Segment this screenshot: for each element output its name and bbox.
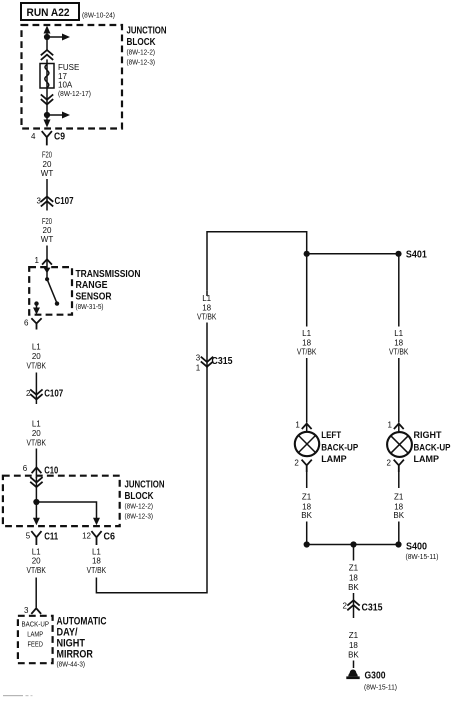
wire: right lamp feed lower segment xyxy=(398,358,400,423)
wire: branch to C6 xyxy=(36,502,96,519)
svg-text:(8W-12-3): (8W-12-3) xyxy=(127,58,156,67)
wire label Z1 18 BK (right) xyxy=(393,493,404,521)
svg-text:20: 20 xyxy=(43,226,52,235)
connector C107 pin 3 xyxy=(37,196,74,207)
wire label Z1 18 BK (above C315) xyxy=(348,564,359,592)
svg-text:VT/BK: VT/BK xyxy=(26,566,46,575)
wire label L1 18 VT/BK (right lamp) xyxy=(389,329,409,356)
node: splice dot above fuse with right arrow xyxy=(44,34,70,41)
svg-text:18: 18 xyxy=(394,502,403,511)
splice S400 xyxy=(395,541,438,561)
svg-text:LAMP: LAMP xyxy=(27,630,43,639)
wire: C6 run to C315 (down, right, up long riser) xyxy=(96,368,207,593)
svg-text:JUNCTION: JUNCTION xyxy=(125,480,165,491)
right back-up lamp label xyxy=(414,430,451,465)
svg-text:VT/BK: VT/BK xyxy=(27,439,47,448)
svg-text:1: 1 xyxy=(295,421,300,430)
left back-up lamp label xyxy=(321,430,358,465)
svg-text:RUN A22: RUN A22 xyxy=(27,7,70,19)
svg-text:VT/BK: VT/BK xyxy=(297,347,317,356)
svg-text:20: 20 xyxy=(32,557,41,566)
wire: pin 1 entry arrow into sensor xyxy=(44,268,51,278)
svg-text:(8W-12-3): (8W-12-3) xyxy=(125,512,154,521)
wire: S400 ground bus xyxy=(307,544,399,546)
node: splice dot middle of S400 bus xyxy=(350,541,356,547)
svg-text:(8W-15-11): (8W-15-11) xyxy=(406,552,439,561)
wire segment C9 to C107 xyxy=(46,179,48,211)
switch pole with exit arrow to pin 6 xyxy=(33,301,40,314)
svg-text:G300: G300 xyxy=(365,671,386,682)
junction block (upper) label xyxy=(127,26,167,67)
switch contact (movable blade) xyxy=(45,277,59,306)
svg-text:WT: WT xyxy=(41,169,54,178)
svg-text:VT/BK: VT/BK xyxy=(389,347,409,356)
wire label L1 18 VT/BK (riser) xyxy=(197,294,217,322)
mirror pin 3 connector xyxy=(24,606,41,615)
svg-text:18: 18 xyxy=(349,573,358,582)
wire label L1 20 VT/BK xyxy=(27,343,47,371)
wire label L1 18 VT/BK (left lamp) xyxy=(297,329,317,356)
wire: right lamp ground upper segment xyxy=(398,472,400,488)
svg-text:Z1: Z1 xyxy=(349,631,359,640)
svg-text:S400: S400 xyxy=(406,541,427,552)
junction block (upper) dashed outline xyxy=(22,25,123,129)
left back-up lamp bulb xyxy=(295,432,319,456)
wire: C6 exit arrow xyxy=(93,518,100,526)
svg-text:RANGE: RANGE xyxy=(76,280,108,291)
wire segment C107 to sensor pin 1 xyxy=(46,246,48,272)
svg-text:12: 12 xyxy=(82,532,91,541)
wire: right lamp feed upper segment xyxy=(398,254,400,327)
junction block (lower) dashed outline xyxy=(3,476,120,526)
svg-text:2: 2 xyxy=(386,458,391,467)
automatic day/night mirror label xyxy=(57,616,107,669)
svg-text:(8W-12-17): (8W-12-17) xyxy=(58,89,91,98)
svg-text:5: 5 xyxy=(26,532,31,541)
svg-text:S401: S401 xyxy=(406,250,427,261)
svg-text:4: 4 xyxy=(31,132,36,141)
svg-text:17: 17 xyxy=(58,72,67,81)
svg-text:18: 18 xyxy=(302,502,311,511)
connector C6 pin 12 xyxy=(82,532,115,545)
svg-text:1: 1 xyxy=(387,421,392,430)
svg-text:(8W-31-5): (8W-31-5) xyxy=(76,302,104,311)
svg-text:Z1: Z1 xyxy=(394,493,404,502)
svg-text:C315: C315 xyxy=(212,356,233,367)
wire label Z1 18 BK (below C315) xyxy=(348,631,359,659)
svg-text:F20: F20 xyxy=(42,151,52,160)
svg-text:L1: L1 xyxy=(302,329,311,338)
svg-text:BACK-UP: BACK-UP xyxy=(21,620,49,629)
wire: splice dot to chevron xyxy=(46,37,48,51)
svg-text:6: 6 xyxy=(24,318,29,327)
transmission range sensor dashed outline xyxy=(29,267,72,315)
svg-text:LEFT: LEFT xyxy=(321,430,341,441)
svg-text:L1: L1 xyxy=(32,547,41,556)
svg-text:FEED: FEED xyxy=(27,640,43,649)
fuse 17 element xyxy=(40,64,54,89)
svg-text:BK: BK xyxy=(348,651,359,660)
svg-text:L1: L1 xyxy=(32,343,41,352)
wire label L1 18 VT/BK (C6) xyxy=(87,547,107,575)
svg-text:F20: F20 xyxy=(42,217,52,226)
switch state box RUN A22 xyxy=(21,3,79,20)
sensor pin 6 connector xyxy=(24,318,41,328)
svg-text:C9: C9 xyxy=(54,132,65,143)
wire segment riser above label xyxy=(206,291,208,296)
svg-text:C11: C11 xyxy=(44,532,58,543)
faint page artifact bottom-left xyxy=(3,695,33,696)
svg-text:BACK-UP: BACK-UP xyxy=(321,443,358,454)
svg-text:18: 18 xyxy=(349,641,358,650)
node: splice dot left end of S400 bus xyxy=(304,541,310,547)
svg-text:18: 18 xyxy=(202,303,211,312)
svg-text:C315: C315 xyxy=(362,602,383,613)
connector chevron (double) below fuse xyxy=(42,88,53,112)
svg-text:(8W-10-24): (8W-10-24) xyxy=(82,11,115,20)
svg-text:LAMP: LAMP xyxy=(414,454,440,465)
svg-text:BK: BK xyxy=(393,511,404,520)
svg-text:(8W-12-2): (8W-12-2) xyxy=(125,502,154,511)
wire: left lamp feed lower segment xyxy=(306,358,308,423)
svg-text:C107: C107 xyxy=(44,389,63,400)
svg-text:20: 20 xyxy=(32,352,41,361)
wire: S400 to C315 upper segment xyxy=(353,545,355,561)
wire segment to ground G300 xyxy=(353,661,355,669)
connector C10 pin 6 xyxy=(23,464,59,477)
connector chevron (double) inside junction block xyxy=(31,477,42,499)
svg-text:L1: L1 xyxy=(394,329,403,338)
fuse label FUSE 17 10A (8W-12-17) xyxy=(58,63,91,98)
junction block (lower) label xyxy=(125,480,165,521)
connector chevron (double) above fuse xyxy=(42,50,53,64)
svg-text:L1: L1 xyxy=(32,420,41,429)
wire label Z1 18 BK (left) xyxy=(301,493,312,521)
svg-text:LAMP: LAMP xyxy=(321,454,347,465)
svg-text:(8W-12-2): (8W-12-2) xyxy=(127,48,156,57)
wire: left lamp ground upper segment xyxy=(306,472,308,488)
svg-text:2: 2 xyxy=(294,458,299,467)
right lamp pin 2 connector xyxy=(386,458,403,471)
svg-text:3: 3 xyxy=(196,353,201,362)
svg-text:BLOCK: BLOCK xyxy=(125,491,154,502)
svg-text:20: 20 xyxy=(43,160,52,169)
svg-text:RIGHT: RIGHT xyxy=(414,430,442,441)
svg-text:WT: WT xyxy=(41,235,54,244)
connector C315 pin 2 xyxy=(343,600,383,613)
connector C9 pin 4 xyxy=(31,132,65,145)
wire: feed from fuse up to RUN A22 with up arrow xyxy=(44,26,51,38)
wire segment to C10 xyxy=(35,449,37,479)
svg-text:Z1: Z1 xyxy=(302,493,312,502)
ground G300 symbol xyxy=(346,670,359,680)
svg-text:(8W-15-11): (8W-15-11) xyxy=(364,682,397,691)
svg-text:VT/BK: VT/BK xyxy=(197,313,217,322)
wire label F20 20 WT xyxy=(41,151,54,179)
node: splice dot below fuse with right arrow xyxy=(44,112,70,119)
sensor pin 1 connector xyxy=(35,256,52,265)
svg-text:(8W-44-3): (8W-44-3) xyxy=(57,660,86,669)
svg-text:Z1: Z1 xyxy=(349,564,359,573)
splice S401 xyxy=(395,250,427,261)
svg-text:18: 18 xyxy=(302,338,311,347)
svg-text:FUSE: FUSE xyxy=(58,63,79,72)
svg-text:1: 1 xyxy=(35,256,40,265)
svg-text:18: 18 xyxy=(394,338,403,347)
ground G300 label xyxy=(364,671,397,692)
svg-text:BK: BK xyxy=(348,583,359,592)
automatic day/night mirror dashed outline xyxy=(18,616,53,663)
svg-text:20: 20 xyxy=(32,429,41,438)
svg-text:1: 1 xyxy=(196,363,201,372)
connector C315 pin 3/1 xyxy=(196,353,233,372)
node: splice dot in junction block xyxy=(33,499,39,505)
left lamp pin 1 connector xyxy=(295,421,311,432)
wire segment C11 to mirror xyxy=(35,578,37,608)
left lamp pin 2 connector xyxy=(294,458,311,471)
wire label F20 20 WT xyxy=(41,217,54,244)
svg-text:BLOCK: BLOCK xyxy=(127,37,156,48)
wire: right lamp ground lower segment xyxy=(398,522,400,545)
connector C11 pin 5 xyxy=(26,532,59,545)
svg-text:SENSOR: SENSOR xyxy=(76,291,112,302)
back-up lamp feed label xyxy=(21,620,49,649)
node: splice dot left of S401 xyxy=(304,251,310,257)
svg-text:C107: C107 xyxy=(55,196,74,207)
right back-up lamp bulb xyxy=(387,432,412,457)
wire: left lamp feed upper segment xyxy=(306,254,308,327)
wire segment into C315 pin 2 xyxy=(353,593,355,618)
svg-text:18: 18 xyxy=(92,557,101,566)
wire label L1 20 VT/BK (C11) xyxy=(26,547,46,575)
svg-text:C6: C6 xyxy=(104,532,116,543)
transmission range sensor label xyxy=(76,269,141,311)
svg-text:JUNCTION: JUNCTION xyxy=(127,26,167,37)
wire: fuse output exiting junction block with down arrow xyxy=(44,115,51,128)
wire segment pin6 to C107 xyxy=(35,373,37,405)
svg-text:BACK-UP: BACK-UP xyxy=(414,443,451,454)
connector C107 pin 2 xyxy=(26,389,63,400)
wire label L1 20 VT/BK xyxy=(27,420,47,448)
svg-text:6: 6 xyxy=(23,464,28,473)
svg-text:3: 3 xyxy=(24,606,29,615)
wire: C11 exit with down arrow xyxy=(33,502,40,525)
wire: top run from riser to lamp branch xyxy=(207,232,307,291)
svg-text:VT/BK: VT/BK xyxy=(27,361,47,370)
svg-text:VT/BK: VT/BK xyxy=(87,566,107,575)
right lamp pin 1 connector xyxy=(387,421,403,433)
wire: splice to S401 xyxy=(307,253,399,255)
wire: left lamp ground lower segment xyxy=(306,522,308,545)
svg-text:TRANSMISSION: TRANSMISSION xyxy=(76,269,141,280)
svg-text:2: 2 xyxy=(343,602,348,611)
svg-text:BK: BK xyxy=(301,511,312,520)
svg-text:L1: L1 xyxy=(92,547,101,556)
wire segment riser below label xyxy=(206,323,208,369)
